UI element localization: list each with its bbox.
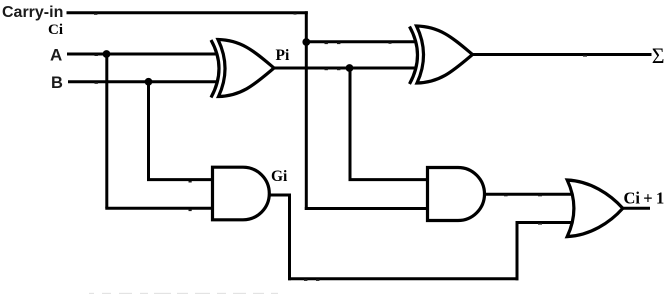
wire A horizontal (67, 53, 216, 56)
svg-text:Ci: Ci (48, 22, 63, 38)
wire AND2 output to OR top input (484, 193, 573, 196)
and-gate AND1 (Gi) (213, 167, 270, 220)
wire Pi to AND2 top input (349, 178, 430, 181)
svg-text:B: B (51, 74, 63, 92)
wire A to AND1 bottom input (105, 207, 214, 210)
wire B vertical drop (147, 82, 150, 180)
wire Pi output (274, 67, 417, 70)
wire to OR bottom input (516, 221, 574, 224)
junction Pi branch (346, 64, 354, 72)
svg-text:Gi: Gi (271, 168, 288, 185)
wire rise to OR bottom input (516, 223, 519, 281)
wire B horizontal (68, 80, 216, 83)
wire B to AND1 top input (147, 178, 214, 181)
wire carry-in vertical drop (305, 11, 308, 210)
junction A (103, 50, 111, 58)
svg-text:Σ: Σ (652, 43, 665, 68)
junction B (145, 78, 153, 86)
wire Gi vertical down (288, 194, 291, 281)
wire Gi output stub (269, 194, 290, 197)
wire carry-in horizontal (67, 11, 308, 14)
artifact faint bottom text remnants (89, 293, 278, 294)
svg-text:Carry-in: Carry-in (2, 4, 63, 21)
tick artifacts on wires (94, 13, 587, 281)
xor-gate XOR2 (sum) (410, 26, 473, 84)
wire XOR2 output to sigma (472, 53, 652, 56)
wire OR output (621, 207, 650, 210)
wire bottom horizontal (288, 277, 519, 280)
xor-gate XOR1 (Pi) (211, 40, 274, 98)
svg-text:Pi: Pi (276, 47, 290, 64)
svg-text:Ci + 1: Ci + 1 (624, 189, 665, 208)
wire A vertical drop (105, 54, 108, 208)
wire Pi vertical drop (349, 68, 352, 180)
junction carry branch (302, 38, 310, 46)
svg-text:A: A (50, 46, 62, 65)
wire carry branch to XOR2 top input (306, 40, 416, 43)
or-gate OR1 (Ci+1) (567, 180, 623, 237)
and-gate AND2 (428, 168, 485, 221)
wire carry to AND2 bottom input (305, 207, 429, 210)
